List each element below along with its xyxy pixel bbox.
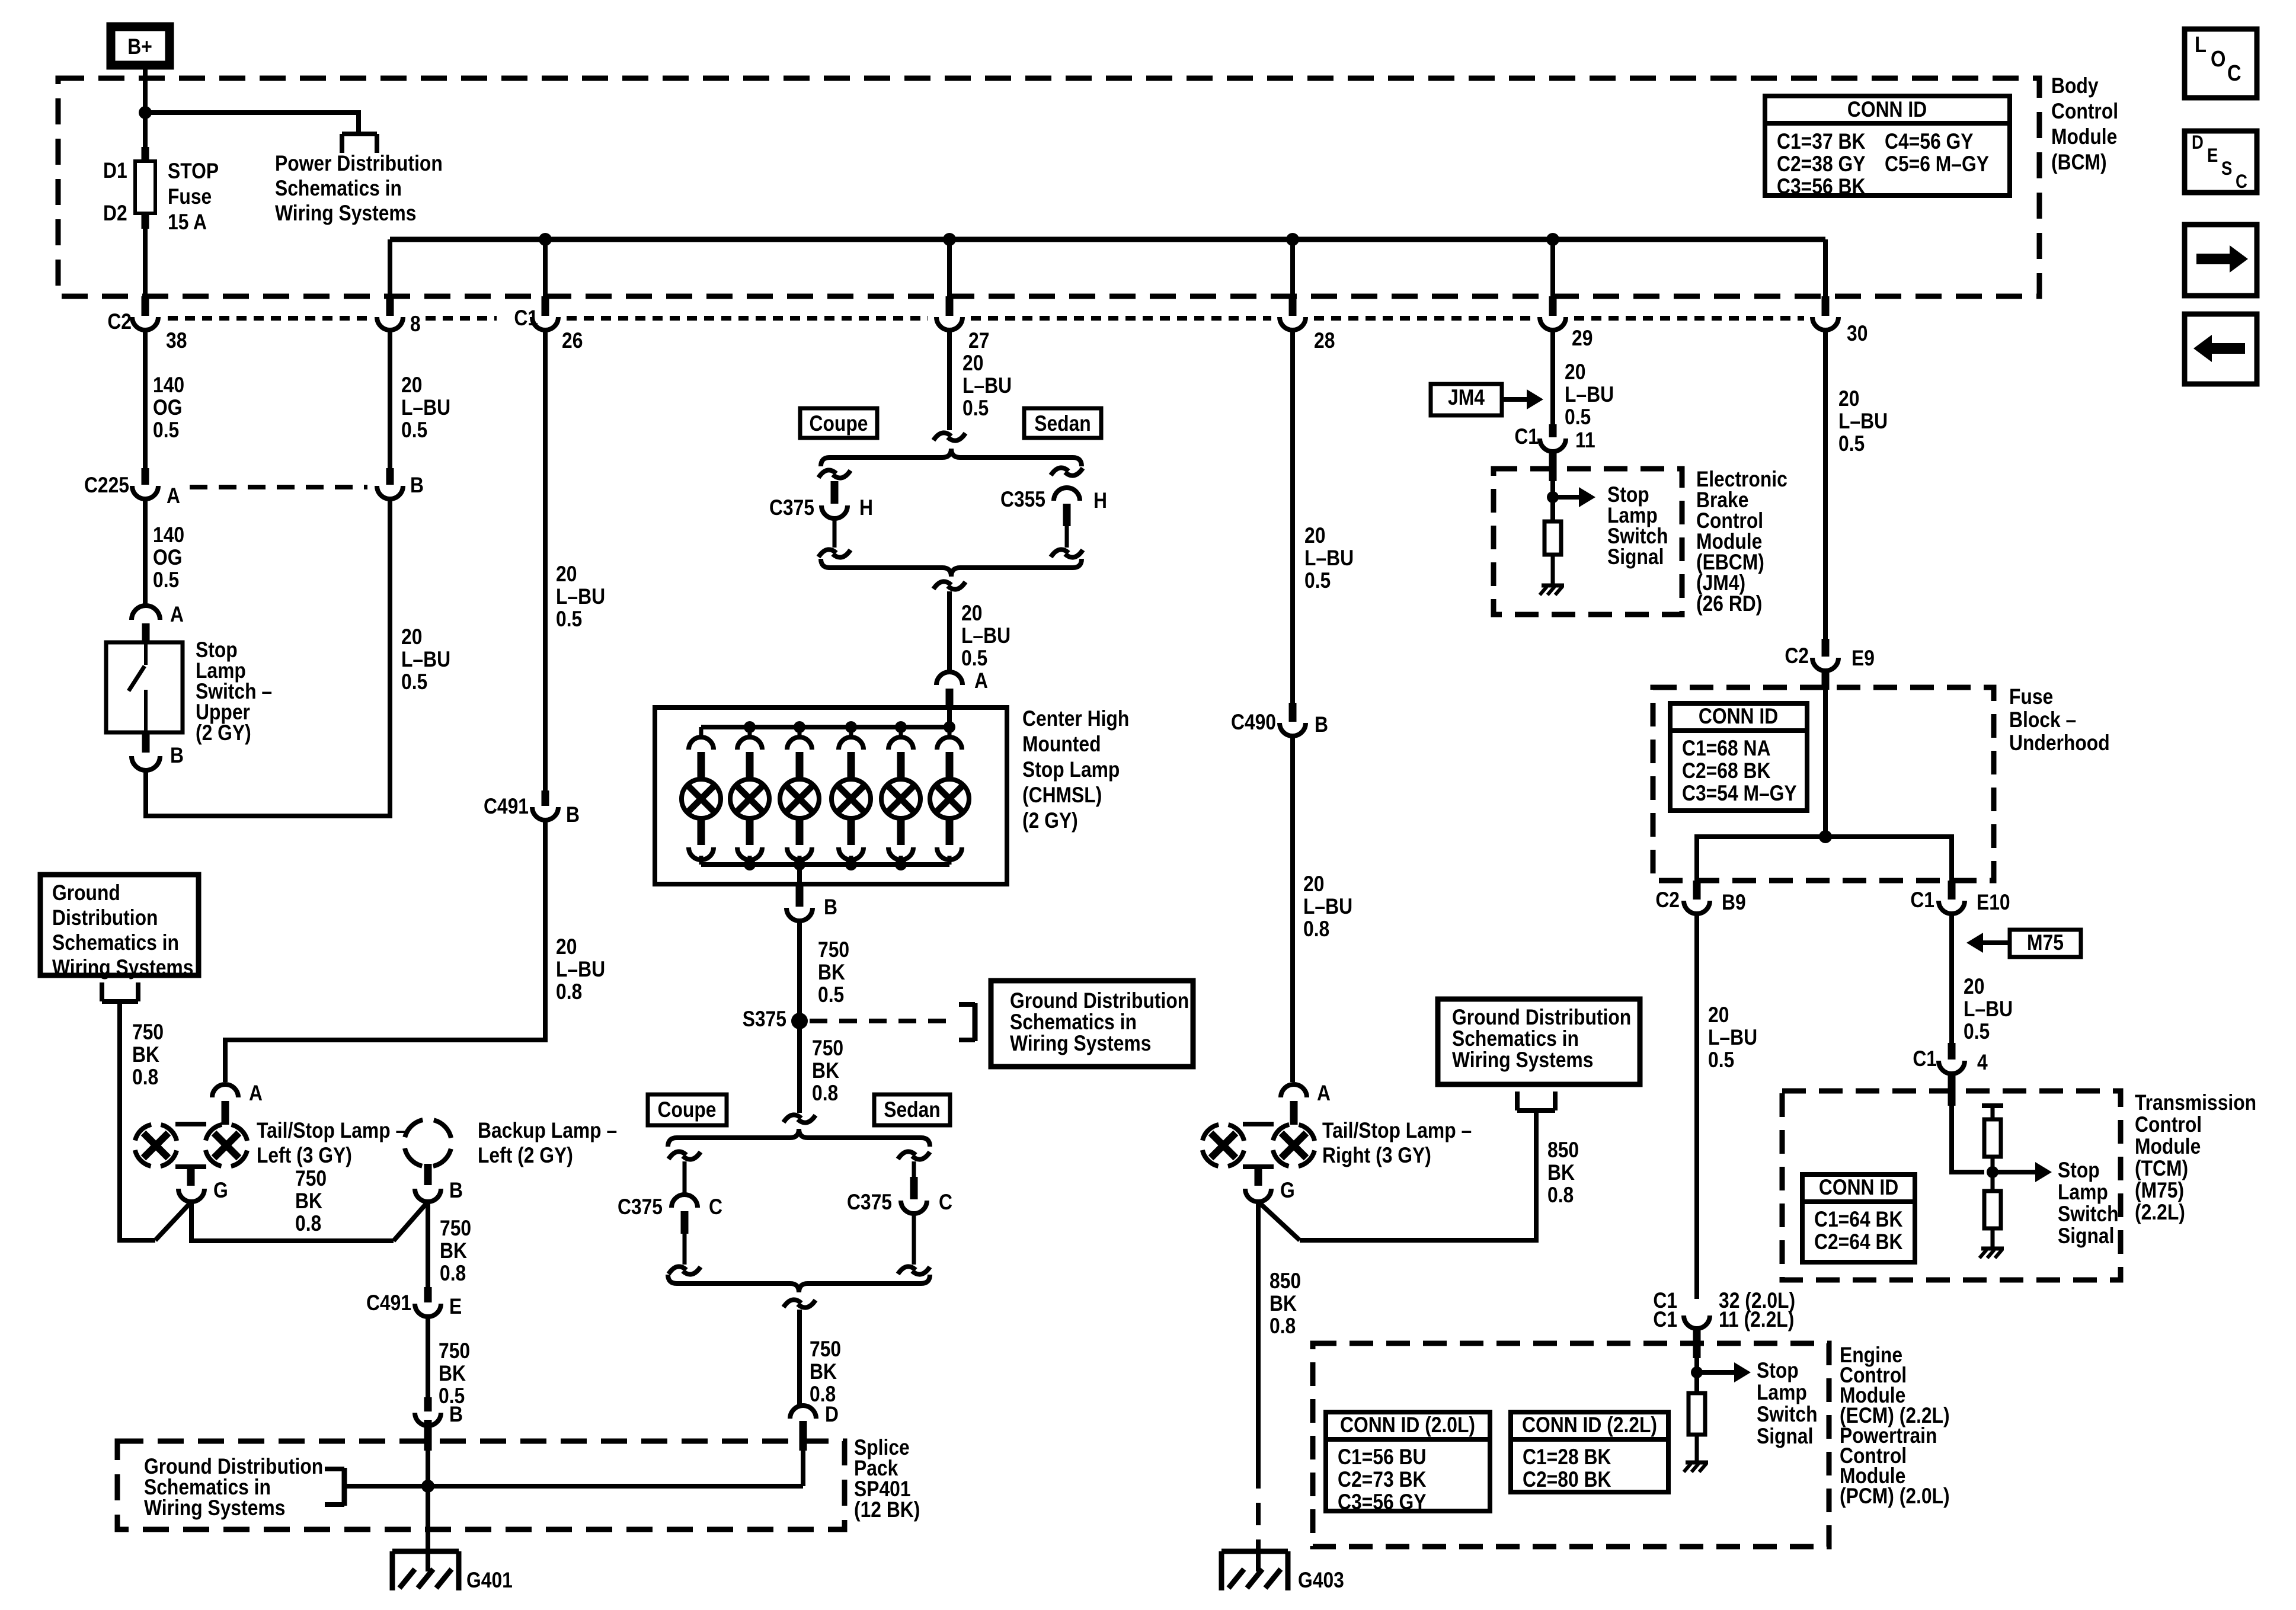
node bus junction 28 — [1286, 233, 1299, 246]
svg-text:750: 750 — [810, 1337, 841, 1362]
svg-text:C3=54 M–GY: C3=54 M–GY — [1682, 782, 1797, 806]
svg-text:G401: G401 — [466, 1569, 513, 1593]
svg-text:0.5: 0.5 — [401, 418, 427, 443]
svg-text:L–BU: L–BU — [556, 958, 605, 982]
svg-text:C2=68 BK: C2=68 BK — [1682, 759, 1770, 783]
svg-text:Tail/Stop Lamp –: Tail/Stop Lamp – — [1322, 1119, 1472, 1143]
svg-text:750: 750 — [132, 1020, 164, 1045]
lamp CHMSL bulb 1 — [682, 727, 721, 865]
node bus junction C1-26 — [539, 233, 552, 246]
svg-text:B: B — [824, 895, 837, 920]
box Splice Pack SP401 dashed outline — [117, 1441, 845, 1529]
wire switch B return to pin 8 wire — [146, 499, 390, 816]
svg-text:C: C — [2227, 60, 2241, 86]
label Backup Lamp - Left (2 GY) — [478, 1119, 617, 1168]
wire backup B down to C491 E — [426, 1202, 430, 1287]
svg-text:E10: E10 — [1977, 891, 2010, 915]
svg-text:L–BU: L–BU — [401, 396, 450, 420]
bracket S375 ground distribution — [959, 1003, 975, 1041]
svg-text:B9: B9 — [1722, 891, 1746, 915]
label 20 L-BU 0.5 (E10 wire) — [1964, 975, 2013, 1044]
svg-text:BK: BK — [439, 1362, 466, 1386]
svg-text:11 (2.2L): 11 (2.2L) — [1719, 1308, 1794, 1332]
svg-text:L–BU: L–BU — [401, 648, 450, 672]
button DESC — [2185, 131, 2257, 193]
svg-text:C225: C225 — [84, 473, 129, 498]
svg-text:H: H — [859, 496, 873, 520]
svg-text:C2: C2 — [1655, 888, 1680, 913]
svg-text:Sedan: Sedan — [884, 1098, 940, 1122]
brace coupe/sedan split (upper) — [821, 449, 1082, 466]
svg-text:Control: Control — [2051, 100, 2118, 124]
svg-text:C490: C490 — [1231, 710, 1276, 735]
svg-text:0.8: 0.8 — [1303, 917, 1329, 942]
svg-text:0.8: 0.8 — [295, 1212, 321, 1236]
label 850 BK 0.8 (to G403) — [1269, 1269, 1301, 1339]
svg-text:D: D — [2192, 132, 2204, 153]
wire to power distribution off-page — [145, 113, 359, 134]
connector pin 29 — [1540, 296, 1593, 351]
connector C491 pin B — [484, 790, 580, 827]
button LOC — [2185, 29, 2257, 98]
svg-text:C1=28 BK: C1=28 BK — [1523, 1445, 1611, 1470]
wire fuse block internal bus — [1697, 837, 1952, 881]
svg-text:L–BU: L–BU — [1303, 895, 1352, 919]
svg-text:(12 BK): (12 BK) — [854, 1498, 920, 1522]
box Coupe (lower) — [648, 1094, 727, 1125]
wire break above splice D — [784, 1299, 816, 1307]
connector C375 pin H — [769, 470, 873, 557]
wire 20 L-BU from pin 29 — [1550, 330, 1555, 424]
svg-text:Schematics in: Schematics in — [1010, 1010, 1137, 1035]
node TCM junction — [1987, 1166, 1998, 1178]
svg-text:Stop: Stop — [2058, 1158, 2100, 1183]
svg-text:D2: D2 — [103, 201, 127, 226]
svg-text:0.8: 0.8 — [812, 1081, 838, 1106]
svg-text:E9: E9 — [1851, 646, 1875, 671]
svg-text:0.5: 0.5 — [153, 418, 179, 443]
wire ground distribution to lamp G — [120, 1001, 191, 1240]
wire break below S375 — [784, 1115, 816, 1122]
svg-text:Lamp: Lamp — [1757, 1381, 1807, 1405]
svg-text:C: C — [939, 1190, 952, 1215]
power symbol B+ — [111, 27, 170, 65]
svg-text:850: 850 — [1547, 1138, 1579, 1163]
svg-text:BK: BK — [1547, 1161, 1575, 1185]
svg-text:20: 20 — [556, 562, 577, 587]
svg-text:BK: BK — [440, 1239, 467, 1263]
svg-text:(2.2L): (2.2L) — [2135, 1201, 2185, 1225]
tag M75 with arrow — [1966, 930, 2081, 957]
svg-text:Control: Control — [2135, 1113, 2202, 1137]
svg-text:C: C — [709, 1195, 722, 1219]
svg-text:Wiring Systems: Wiring Systems — [1452, 1048, 1593, 1073]
fuse STOP Fuse 15 A — [103, 147, 219, 235]
svg-text:A: A — [170, 603, 184, 627]
node fuse block junction — [1819, 830, 1832, 843]
wire 20 L-BU from pin 28 — [1290, 330, 1295, 703]
module box Body Control Module (BCM) dashed outline — [58, 78, 2039, 296]
wire fuse block internal feed — [1823, 690, 1828, 837]
svg-text:BK: BK — [812, 1059, 839, 1083]
ground EBCM internal — [1540, 585, 1564, 595]
svg-text:750: 750 — [812, 1036, 843, 1061]
connector C355 pin H — [1000, 468, 1107, 557]
brace coupe/sedan merge (upper) — [821, 559, 1082, 577]
wire B9 to ECM — [1694, 914, 1699, 1299]
resistor EBCM pull-down — [1544, 521, 1561, 555]
wire B+ to fuse — [143, 68, 148, 149]
bracket splice ground distribution — [325, 1468, 344, 1506]
svg-text:Wiring Systems: Wiring Systems — [144, 1496, 285, 1521]
svg-text:29: 29 — [1572, 327, 1593, 351]
svg-text:27: 27 — [968, 329, 989, 353]
connector C375 pin C (coupe) — [618, 1151, 722, 1274]
wire lamp G to G403 (dashed) — [1256, 1466, 1261, 1541]
box Ground Distribution Schematics in Wiring Systems (middle) — [991, 981, 1193, 1067]
svg-text:(BCM): (BCM) — [2051, 151, 2107, 175]
svg-text:C2: C2 — [107, 310, 132, 334]
label Center High Mounted Stop Lamp (CHMSL) (2 GY) — [1022, 707, 1129, 833]
node splice junction SP401 — [421, 1480, 434, 1493]
arrow TCM stop lamp switch signal — [1993, 1162, 2052, 1182]
label 20 L-BU 0.5 (CHMSL feed) — [961, 601, 1011, 671]
wire lamp G to G403 (solid) — [1256, 1202, 1261, 1466]
box Ground Distribution Schematics in Wiring Systems (right) — [1438, 999, 1640, 1084]
label Engine Control Module (ECM) (2.2L) Powertrain Control Module (PCM) (2.0L) — [1840, 1343, 1950, 1509]
connector pin 28 — [1280, 296, 1335, 353]
wire right ground distribution to lamp G — [1258, 1110, 1536, 1240]
node CHMSL bottom bus junctions — [744, 859, 907, 870]
svg-text:CONN ID (2.2L): CONN ID (2.2L) — [1522, 1413, 1657, 1438]
svg-text:(PCM) (2.0L): (PCM) (2.0L) — [1840, 1484, 1950, 1509]
svg-text:C375: C375 — [847, 1190, 892, 1215]
svg-text:C1: C1 — [1913, 1047, 1937, 1071]
svg-text:20: 20 — [961, 601, 982, 626]
svg-text:Center High: Center High — [1022, 707, 1129, 731]
svg-text:OG: OG — [153, 546, 182, 570]
svg-text:0.8: 0.8 — [1269, 1314, 1296, 1339]
svg-text:C2=64 BK: C2=64 BK — [1814, 1230, 1902, 1254]
svg-text:BK: BK — [295, 1189, 322, 1214]
svg-text:S375: S375 — [743, 1007, 786, 1032]
svg-text:Schematics in: Schematics in — [1452, 1027, 1579, 1051]
wire splice B leg — [426, 1451, 430, 1486]
svg-text:JM4: JM4 — [1448, 386, 1485, 410]
tag JM4 with arrow — [1431, 384, 1543, 415]
svg-text:(CHMSL): (CHMSL) — [1022, 783, 1102, 808]
svg-text:Power Distribution: Power Distribution — [275, 152, 443, 176]
lamp CHMSL bulb 6 — [930, 727, 969, 865]
label 750 BK 0.5 (above splice) — [439, 1339, 470, 1409]
connector TCM C1 pin 4 — [1913, 1043, 1987, 1106]
wire bus drop to pin 30 — [1823, 239, 1828, 297]
label Body Control Module (BCM) — [2051, 74, 2118, 175]
svg-text:C1=64 BK: C1=64 BK — [1814, 1208, 1902, 1232]
switch Stop Lamp Switch - Upper — [106, 623, 183, 753]
svg-text:G403: G403 — [1298, 1569, 1344, 1593]
wire TCM resistor junction — [1991, 1157, 1995, 1191]
svg-text:C491: C491 — [366, 1291, 411, 1315]
svg-text:Body: Body — [2051, 74, 2099, 98]
node bus junction 29 — [1546, 233, 1559, 246]
wire 20 L-BU from pin 26 — [543, 330, 548, 790]
svg-text:26: 26 — [562, 329, 583, 353]
node fuse feed junction — [139, 106, 152, 119]
wire break pin 27 wire — [933, 433, 965, 440]
wire lamp G to backup B — [191, 1202, 428, 1241]
wire S375 dashed to ground distribution — [810, 1019, 955, 1023]
svg-text:0.8: 0.8 — [440, 1262, 466, 1286]
svg-text:(26 RD): (26 RD) — [1696, 592, 1762, 616]
svg-text:C1=37 BK: C1=37 BK — [1777, 130, 1865, 154]
label Stop Lamp Switch Signal (EBCM) — [1607, 483, 1668, 569]
connector splice pack pin D — [790, 1403, 839, 1451]
connector splice pack pin B — [415, 1397, 463, 1451]
svg-text:0.8: 0.8 — [810, 1382, 836, 1407]
svg-text:20: 20 — [1565, 360, 1585, 385]
wire splice bus — [344, 1484, 803, 1489]
svg-text:20: 20 — [1964, 975, 1984, 999]
svg-text:Distribution: Distribution — [52, 906, 158, 930]
svg-text:0.5: 0.5 — [818, 983, 844, 1007]
wire ECM resistor to ground — [1695, 1435, 1699, 1462]
resistor TCM pull-up — [1984, 1119, 2001, 1157]
svg-text:20: 20 — [1303, 872, 1324, 897]
svg-text:OG: OG — [153, 396, 182, 420]
svg-text:Backup Lamp –: Backup Lamp – — [478, 1119, 617, 1143]
svg-text:B: B — [449, 1179, 463, 1203]
svg-text:(2 GY): (2 GY) — [196, 721, 251, 745]
module box TCM dashed outline — [1782, 1091, 2121, 1280]
table fuse block CONN ID — [1670, 703, 1807, 811]
svg-text:A: A — [167, 484, 180, 508]
svg-text:(2 GY): (2 GY) — [1022, 809, 1078, 833]
svg-text:(TCM): (TCM) — [2135, 1157, 2188, 1181]
svg-text:C491: C491 — [484, 795, 529, 819]
svg-text:E: E — [2207, 145, 2218, 166]
svg-text:Left (3 GY): Left (3 GY) — [257, 1144, 352, 1168]
svg-text:B: B — [566, 803, 580, 827]
svg-text:C1=56 BU: C1=56 BU — [1338, 1445, 1426, 1470]
wire TCM input — [1952, 1106, 1984, 1172]
label Fuse Block - Underhood — [2009, 685, 2110, 756]
wire CHMSL top bus — [701, 725, 949, 729]
lamp CHMSL bulb 4 — [832, 727, 871, 865]
wire pin 8 to connector B — [388, 330, 392, 469]
svg-text:20: 20 — [556, 935, 577, 959]
node EBCM junction — [1547, 491, 1559, 503]
svg-text:0.8: 0.8 — [556, 980, 582, 1004]
svg-text:C1: C1 — [1910, 888, 1934, 913]
svg-text:L–BU: L–BU — [1964, 997, 2013, 1022]
svg-text:O: O — [2211, 46, 2225, 72]
label Tail/Stop Lamp - Left (3 GY) — [257, 1119, 406, 1168]
svg-text:Sedan: Sedan — [1034, 412, 1091, 436]
svg-text:Stop: Stop — [1757, 1359, 1799, 1383]
wire C491 E to splice — [426, 1317, 430, 1397]
module box ECM/PCM dashed outline — [1313, 1343, 1829, 1547]
wire 20 L-BU from pin 30 — [1823, 330, 1828, 639]
label Transmission Control Module (TCM) (M75) (2.2L) — [2135, 1091, 2256, 1225]
ground G401 — [392, 1551, 513, 1593]
svg-text:B: B — [410, 473, 424, 498]
svg-text:Mounted: Mounted — [1022, 732, 1101, 757]
svg-text:STOP: STOP — [168, 159, 219, 184]
connector tail lamp left pin A — [212, 1081, 263, 1125]
connector CHMSL pin A — [936, 669, 988, 710]
connector C1 pin 26 — [514, 296, 583, 353]
svg-text:0.5: 0.5 — [961, 646, 987, 671]
svg-text:Wiring Systems: Wiring Systems — [52, 956, 193, 980]
bracket below left ground box — [102, 982, 138, 1001]
wire E10 to TCM — [1949, 914, 1954, 1043]
label Electronic Brake Control Module (EBCM) (JM4) (26 RD) — [1696, 468, 1787, 616]
svg-text:Stop Lamp: Stop Lamp — [1022, 758, 1120, 782]
box Fuse Block - Underhood dashed outline — [1653, 687, 1994, 881]
bracket below right ground box — [1517, 1092, 1555, 1110]
svg-text:L–BU: L–BU — [1565, 383, 1614, 407]
connector tail lamp right pin G — [1245, 1179, 1295, 1203]
svg-text:C355: C355 — [1000, 488, 1045, 512]
label Stop Lamp Switch - Upper (2 GY) — [196, 638, 272, 745]
svg-text:750: 750 — [818, 938, 849, 962]
svg-text:8: 8 — [410, 312, 421, 337]
box Sedan (upper) — [1024, 408, 1101, 438]
svg-text:0.5: 0.5 — [962, 396, 989, 421]
connector C225 pin A — [84, 468, 180, 508]
svg-text:0.5: 0.5 — [1964, 1020, 1990, 1044]
svg-text:0.5: 0.5 — [153, 568, 179, 593]
svg-text:0.5: 0.5 — [1304, 569, 1331, 593]
connector switch pin B — [132, 744, 184, 770]
connector C2 pin 38 — [107, 296, 187, 353]
label Power Distribution Schematics in Wiring Systems — [275, 152, 443, 226]
svg-text:140: 140 — [153, 373, 184, 398]
connector C490 pin B — [1231, 703, 1328, 737]
lamp Tail/Stop Lamp - Left — [135, 1124, 248, 1186]
svg-text:750: 750 — [440, 1217, 471, 1241]
table TCM CONN ID — [1802, 1174, 1915, 1262]
svg-text:C1: C1 — [514, 306, 538, 331]
svg-text:Tail/Stop Lamp –: Tail/Stop Lamp – — [257, 1119, 406, 1143]
connector tail lamp right pin A — [1281, 1081, 1331, 1125]
svg-text:CONN ID (2.0L): CONN ID (2.0L) — [1340, 1413, 1475, 1438]
connector pin 30 — [1812, 296, 1868, 346]
arrow EBCM stop lamp switch signal — [1553, 487, 1595, 507]
svg-text:Ground: Ground — [52, 881, 120, 905]
svg-text:140: 140 — [153, 523, 184, 548]
svg-text:C3=56 BK: C3=56 BK — [1777, 175, 1865, 199]
connector fuse block C1 pin E10 — [1910, 881, 2010, 915]
svg-text:C1: C1 — [1514, 425, 1539, 449]
wire fuse to BCM pin 38 — [143, 228, 148, 297]
svg-text:Fuse: Fuse — [168, 185, 212, 209]
svg-text:A: A — [1317, 1081, 1331, 1106]
label 20 L-BU 0.5 (pin 8 wire) — [401, 373, 450, 443]
connector backup lamp pin B — [415, 1179, 463, 1203]
label 20 L-BU 0.5 (pin 30 wire) — [1838, 387, 1888, 456]
wire splice D leg — [801, 1451, 805, 1486]
ground ECM internal — [1684, 1462, 1708, 1472]
svg-text:20: 20 — [1708, 1003, 1729, 1028]
svg-text:L–BU: L–BU — [556, 585, 605, 609]
svg-text:850: 850 — [1269, 1269, 1301, 1294]
label Stop Lamp Switch Signal (TCM) — [2058, 1158, 2119, 1249]
svg-text:750: 750 — [295, 1167, 327, 1191]
svg-text:C2=73 BK: C2=73 BK — [1338, 1468, 1426, 1492]
svg-text:L–BU: L–BU — [1708, 1026, 1757, 1050]
brace coupe/sedan split (lower) — [668, 1129, 930, 1147]
svg-text:A: A — [249, 1081, 263, 1106]
svg-text:30: 30 — [1847, 322, 1868, 346]
table ECM CONN ID (2.0L) — [1326, 1412, 1490, 1515]
brace coupe/sedan merge (lower) — [668, 1275, 930, 1292]
wire CHMSL feed drop — [947, 710, 952, 727]
svg-text:0.8: 0.8 — [1547, 1183, 1574, 1208]
svg-text:Left (2 GY): Left (2 GY) — [478, 1144, 573, 1168]
wire 140 OG to switch — [143, 499, 148, 604]
label 750 BK 0.8 (between lamps) — [295, 1167, 327, 1236]
label 20 L-BU 0.5 (pin 29 wire) — [1565, 360, 1614, 430]
label Tail/Stop Lamp - Right (3 GY) — [1322, 1119, 1472, 1168]
svg-text:C2: C2 — [1785, 644, 1809, 668]
wire ECM input — [1694, 1358, 1699, 1393]
label 140 OG 0.5 (lower) — [153, 523, 184, 593]
wire TCM resistor to ground — [1991, 1228, 1995, 1249]
svg-text:C4=56 GY: C4=56 GY — [1885, 130, 1973, 154]
svg-text:G: G — [1280, 1179, 1295, 1203]
table ECM CONN ID (2.2L) — [1511, 1412, 1668, 1492]
connector EBCM C1 pin 11 — [1514, 424, 1595, 481]
svg-text:0.5: 0.5 — [1565, 405, 1591, 430]
svg-text:BK: BK — [810, 1360, 837, 1384]
svg-text:20: 20 — [401, 625, 422, 649]
label 750 BK 0.8 (below B) — [440, 1217, 471, 1286]
svg-text:0.5: 0.5 — [1708, 1048, 1734, 1073]
box Coupe (upper) — [800, 408, 877, 438]
svg-text:H: H — [1093, 489, 1107, 513]
connector switch pin A — [132, 603, 184, 627]
svg-text:20: 20 — [1838, 387, 1859, 411]
svg-text:E: E — [449, 1295, 462, 1319]
wire C490 to lamp A — [1290, 736, 1295, 1082]
node splice S375 — [743, 1007, 808, 1032]
svg-text:Signal: Signal — [1757, 1425, 1813, 1449]
label 20 L-BU 0.8 (below C491) — [556, 935, 605, 1004]
box Ground Distribution Schematics in Wiring Systems (left) — [40, 875, 199, 980]
wire break CHMSL feed — [933, 581, 965, 589]
wire BCM internal bus — [390, 237, 1825, 242]
lamp CHMSL bulb 5 — [881, 727, 920, 865]
label 850 BK 0.8 (right ground) — [1547, 1138, 1579, 1208]
svg-text:20: 20 — [962, 351, 983, 376]
connector CHMSL pin B — [786, 886, 837, 921]
svg-text:L: L — [2195, 32, 2207, 57]
svg-text:0.5: 0.5 — [401, 670, 427, 694]
svg-text:S: S — [2221, 158, 2232, 179]
svg-text:B: B — [1315, 713, 1328, 737]
svg-text:Switch: Switch — [2058, 1202, 2119, 1227]
svg-text:Module: Module — [2051, 125, 2117, 149]
button forward arrow — [2185, 225, 2257, 296]
svg-text:C2=80 BK: C2=80 BK — [1523, 1468, 1611, 1492]
svg-text:0.5: 0.5 — [1838, 432, 1865, 456]
svg-text:B: B — [449, 1403, 463, 1427]
svg-text:CONN ID: CONN ID — [1819, 1176, 1898, 1200]
lamp box Center High Mounted Stop Lamp (CHMSL) — [655, 708, 1007, 884]
svg-text:Schematics in: Schematics in — [275, 177, 402, 201]
